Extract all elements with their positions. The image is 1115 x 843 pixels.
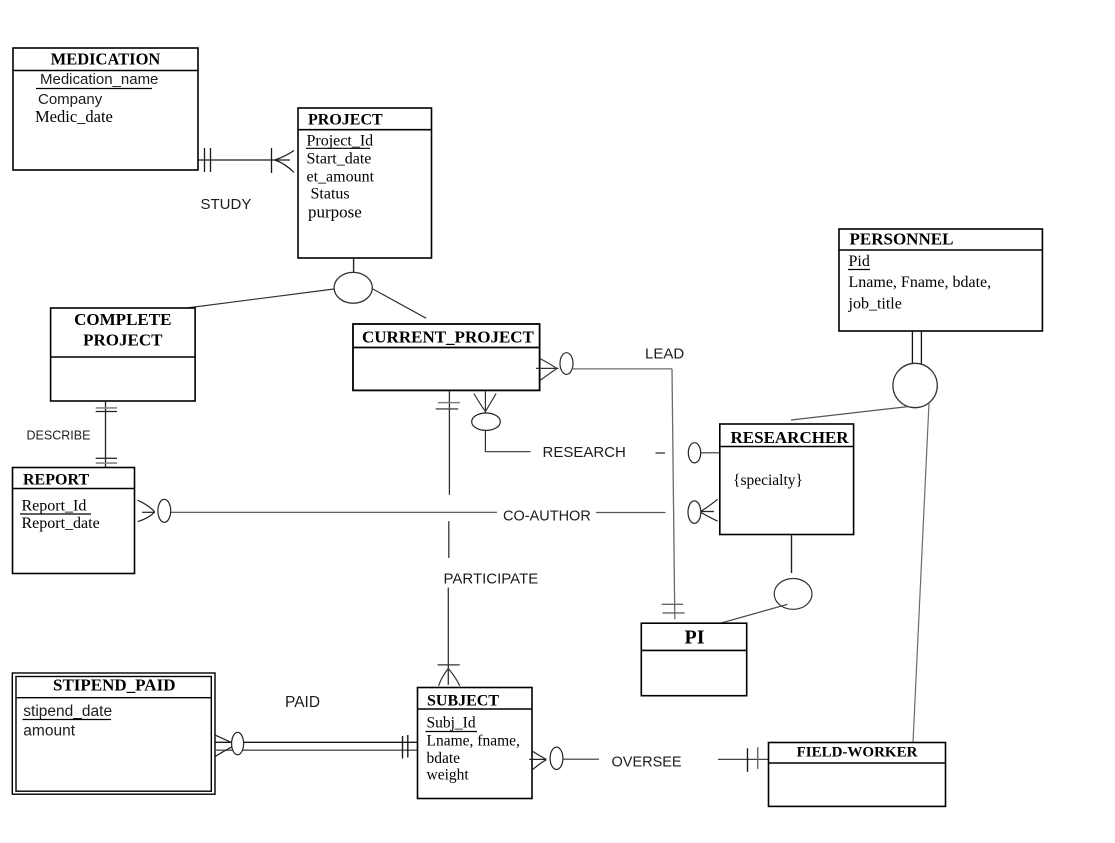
svg-text:Start_date: Start_date — [307, 151, 372, 168]
entity STIPEND_PAID (weak, double border) — [12, 673, 215, 794]
svg-text:Status: Status — [311, 185, 350, 202]
svg-text:weight: weight — [427, 767, 470, 784]
svg-text:PAID: PAID — [285, 694, 320, 711]
relationship STUDY — [199, 148, 295, 213]
svg-text:Subj_Id: Subj_Id — [427, 715, 476, 732]
relationship PARTICIPATE — [436, 391, 539, 686]
svg-text:RESEARCHER: RESEARCHER — [731, 428, 850, 447]
svg-text:STIPEND_PAID: STIPEND_PAID — [53, 676, 175, 695]
svg-text:PI: PI — [685, 627, 705, 649]
svg-text:{specialty}: {specialty} — [733, 472, 803, 489]
svg-text:purpose: purpose — [308, 202, 362, 221]
svg-text:STUDY: STUDY — [201, 196, 252, 213]
entity SUBJECT — [418, 688, 533, 799]
entity REPORT — [13, 468, 135, 574]
svg-text:LEAD: LEAD — [645, 346, 684, 363]
svg-text:CURRENT_PROJECT: CURRENT_PROJECT — [362, 328, 535, 347]
svg-text:SUBJECT: SUBJECT — [427, 693, 499, 710]
line circle to CURRENT_PROJECT — [372, 289, 426, 319]
svg-text:PROJECT: PROJECT — [308, 112, 383, 129]
category circle under PERSONNEL — [893, 363, 937, 407]
svg-text:bdate: bdate — [427, 750, 461, 767]
circle between RESEARCHER and PI — [774, 579, 812, 610]
crow foot CO-AUTHOR at RESEARCHER — [688, 499, 718, 523]
svg-text:RESEARCH: RESEARCH — [543, 444, 626, 461]
line circle to RESEARCHER — [791, 407, 908, 420]
relationship PAID — [215, 694, 417, 759]
svg-text:Lname, Fname, bdate,: Lname, Fname, bdate, — [849, 274, 992, 291]
svg-text:Report_Id: Report_Id — [22, 497, 87, 514]
subtype circle under PROJECT — [334, 272, 372, 303]
svg-text:PROJECT: PROJECT — [83, 331, 163, 350]
svg-text:CO-AUTHOR: CO-AUTHOR — [503, 509, 591, 525]
line circle to PI — [715, 604, 788, 625]
svg-text:FIELD-WORKER: FIELD-WORKER — [797, 745, 918, 761]
relationship OVERSEE — [529, 747, 768, 772]
connector RESEARCHER to circle — [791, 535, 793, 574]
svg-text:PARTICIPATE: PARTICIPATE — [444, 571, 539, 588]
relationship RESEARCH — [472, 391, 720, 463]
line circle to COMPLETE PROJECT — [175, 289, 334, 310]
svg-text:job_title: job_title — [848, 296, 902, 313]
entity CURRENT_PROJECT — [353, 324, 540, 390]
svg-text:Company: Company — [38, 91, 103, 108]
relationship LEAD — [536, 346, 685, 620]
entity PERSONNEL — [839, 229, 1042, 331]
entity FIELD-WORKER — [769, 743, 946, 807]
entity COMPLETE PROJECT — [51, 308, 196, 401]
svg-text:MEDICATION: MEDICATION — [51, 50, 161, 69]
connector PERSONNEL double line — [912, 331, 921, 364]
entity PROJECT — [298, 108, 432, 258]
svg-text:Report_date: Report_date — [22, 515, 100, 532]
svg-text:Medication_name: Medication_name — [40, 71, 158, 88]
entity RESEARCHER — [720, 424, 854, 535]
svg-text:Medic_date: Medic_date — [35, 107, 113, 126]
entity MEDICATION — [13, 48, 198, 170]
svg-text:OVERSEE: OVERSEE — [612, 755, 682, 771]
svg-text:DESCRIBE: DESCRIBE — [27, 429, 91, 443]
svg-text:REPORT: REPORT — [23, 472, 89, 489]
svg-text:Pid: Pid — [849, 253, 870, 270]
entity PI — [641, 623, 746, 696]
svg-text:COMPLETE: COMPLETE — [74, 310, 171, 329]
svg-text:Lname, fname,: Lname, fname, — [427, 733, 520, 750]
svg-text:PERSONNEL: PERSONNEL — [850, 230, 954, 249]
relationship CO-AUTHOR — [138, 499, 666, 524]
connector PROJECT to subtype circle — [353, 258, 355, 272]
relationship DESCRIBE — [27, 401, 118, 468]
svg-text:stipend_date: stipend_date — [23, 703, 112, 720]
svg-text:Project_Id: Project_Id — [307, 132, 374, 149]
svg-text:et_amount: et_amount — [307, 169, 375, 186]
svg-text:amount: amount — [23, 722, 75, 739]
line circle to FIELD-WORKER — [913, 403, 929, 743]
